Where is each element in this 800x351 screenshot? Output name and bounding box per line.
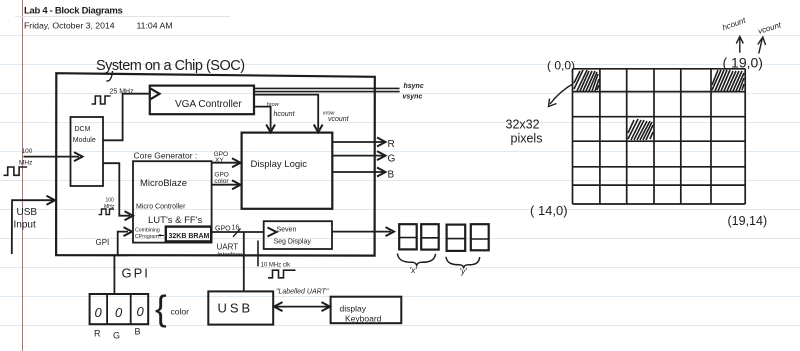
wire 100MHz input (24, 156, 80, 158)
arrowhead into VGA (151, 89, 160, 100)
svg-text:LUT's & FF's: LUT's & FF's (148, 215, 203, 226)
title underline (15, 16, 230, 18)
svg-text:hsync: hsync (404, 83, 424, 90)
svg-text:(19,14): (19,14) (728, 214, 768, 228)
svg-text:25 MHz: 25 MHz (110, 89, 135, 96)
svg-text:10 MHz clk: 10 MHz clk (261, 263, 292, 269)
SoC outer box (56, 73, 375, 255)
svg-text:DCM: DCM (75, 126, 91, 133)
svg-text:color: color (214, 178, 229, 185)
svg-text:CProgram?: CProgram? (135, 234, 162, 240)
svg-text:display: display (340, 304, 367, 314)
svg-text:MicroBlaze: MicroBlaze (140, 178, 187, 189)
wire B out (332, 171, 383, 173)
wire 10MHz clk (257, 241, 259, 267)
svg-text:Combining: Combining (135, 228, 160, 234)
clock symbol MicroBlaze (99, 209, 115, 215)
svg-text:( 19,0): ( 19,0) (723, 55, 763, 71)
svg-text:color: color (171, 307, 190, 317)
svg-text:Friday, October 3, 2014: Friday, October 3, 2014 (24, 21, 115, 31)
svg-text:hcount: hcount (274, 111, 296, 118)
hatch cell (19,0) (712, 70, 744, 91)
svg-text:0: 0 (115, 305, 123, 320)
svg-text:XY: XY (215, 157, 224, 164)
svg-text:GPI: GPI (96, 238, 110, 247)
svg-text:0: 0 (95, 305, 103, 320)
seven-seg digit 2 (421, 224, 439, 249)
svg-text:MHz: MHz (19, 160, 32, 167)
svg-text:pixels: pixels (511, 132, 543, 146)
wire hsync out (254, 87, 400, 89)
svg-text:"Labelled UART": "Labelled UART" (276, 289, 329, 296)
svg-text:'x': 'x' (410, 265, 418, 275)
clock symbol 100MHz (4, 167, 28, 175)
svg-text:32x32: 32x32 (506, 118, 540, 132)
seven-seg digit 3 (447, 225, 466, 251)
svg-text:0: 0 (137, 304, 145, 319)
svg-text:Keyboard: Keyboard (345, 314, 382, 324)
svg-text:B: B (388, 170, 395, 181)
svg-text:100: 100 (106, 198, 115, 204)
block Display Logic (242, 133, 333, 209)
svg-text:GPI: GPI (122, 266, 150, 281)
wire GPI down to color box (113, 255, 115, 293)
block MicroBlaze (133, 161, 212, 242)
block 32KB BRAM (166, 227, 211, 242)
svg-text:Input: Input (14, 220, 36, 231)
svg-text:USB: USB (218, 301, 254, 316)
red margin line (22, 0, 24, 351)
svg-text:Micro Controller: Micro Controller (136, 204, 186, 211)
svg-text:System on a Chip (SOC): System on a Chip (SOC) (96, 58, 245, 74)
clock symbol 25 MHz (92, 96, 111, 104)
svg-text:Core Generator :: Core Generator : (134, 151, 198, 161)
seven-seg digit 4 (471, 224, 489, 250)
svg-text:Module: Module (73, 137, 96, 144)
wire 25MHz: DCM to VGA (103, 94, 150, 141)
USB Input bracket (12, 200, 55, 254)
pixel grid (573, 69, 746, 204)
svg-text:GPO: GPO (215, 226, 231, 233)
svg-text:VGA Controller: VGA Controller (175, 99, 242, 110)
wire UART down to USB (243, 232, 245, 291)
svg-text:( 0,0): ( 0,0) (547, 59, 575, 73)
svg-text:100: 100 (22, 148, 33, 155)
svg-text:( 14,0): ( 14,0) (530, 203, 568, 218)
wire R out (332, 141, 383, 143)
svg-text:11:04 AM: 11:04 AM (137, 21, 173, 31)
block DCM Module (71, 117, 104, 186)
wire GPI into MicroBlaze (118, 232, 128, 255)
svg-text:32KB BRAM: 32KB BRAM (169, 233, 210, 240)
svg-text:vsync: vsync (403, 94, 423, 101)
svg-text:Lab 4 - Block Diagrams: Lab 4 - Block Diagrams (24, 6, 122, 17)
block USB (208, 291, 273, 324)
svg-text:B: B (135, 327, 141, 337)
svg-text:G: G (113, 331, 120, 341)
hatch cell (0,0) (574, 70, 599, 91)
svg-text:hrow: hrow (267, 102, 280, 108)
label vcount top (757, 20, 783, 36)
svg-text:G: G (388, 154, 396, 165)
wire vsync out (254, 91, 400, 93)
svg-text:'y': 'y' (460, 266, 468, 276)
wire hcount: VGA to Display Logic (255, 107, 271, 130)
svg-text:Seven: Seven (277, 227, 297, 234)
svg-text:Display Logic: Display Logic (251, 159, 308, 170)
block VGA Controller (150, 86, 254, 115)
brace y digits (446, 257, 480, 268)
svg-text:16: 16 (232, 225, 240, 232)
svg-text:USB: USB (17, 207, 38, 218)
svg-text:{: { (155, 289, 167, 328)
brace x digits (397, 254, 435, 266)
svg-text:UART: UART (217, 243, 239, 252)
y descender of System (107, 71, 113, 81)
seven-seg digit 1 (399, 224, 417, 249)
clock symbol 10MHz (268, 270, 296, 278)
block display Keyboard (331, 297, 402, 324)
svg-text:Seg Display: Seg Display (274, 239, 312, 246)
wire USB to keyboard double arrow (276, 306, 328, 308)
hatch cell middle (628, 119, 653, 140)
svg-text:Interface: Interface (217, 252, 243, 259)
wire GPO color arrow (212, 184, 239, 186)
svg-text:R: R (94, 329, 101, 339)
svg-text:vcount: vcount (328, 116, 350, 123)
wire vcount: VGA to Display Logic (254, 95, 318, 130)
curved arrow to grid corner (550, 84, 574, 105)
wire G out (332, 155, 383, 157)
wire GPO XY arrow (212, 162, 239, 164)
wire Seven Seg out to digits (332, 231, 391, 233)
svg-text:R: R (388, 139, 395, 150)
wire DCM clock to MicroBlaze (103, 163, 130, 216)
wire GPO 16 to Seven Seg (212, 231, 264, 233)
block Seven Seg Display (264, 221, 332, 249)
label hcount top (721, 15, 747, 32)
block color 000 (90, 294, 149, 324)
